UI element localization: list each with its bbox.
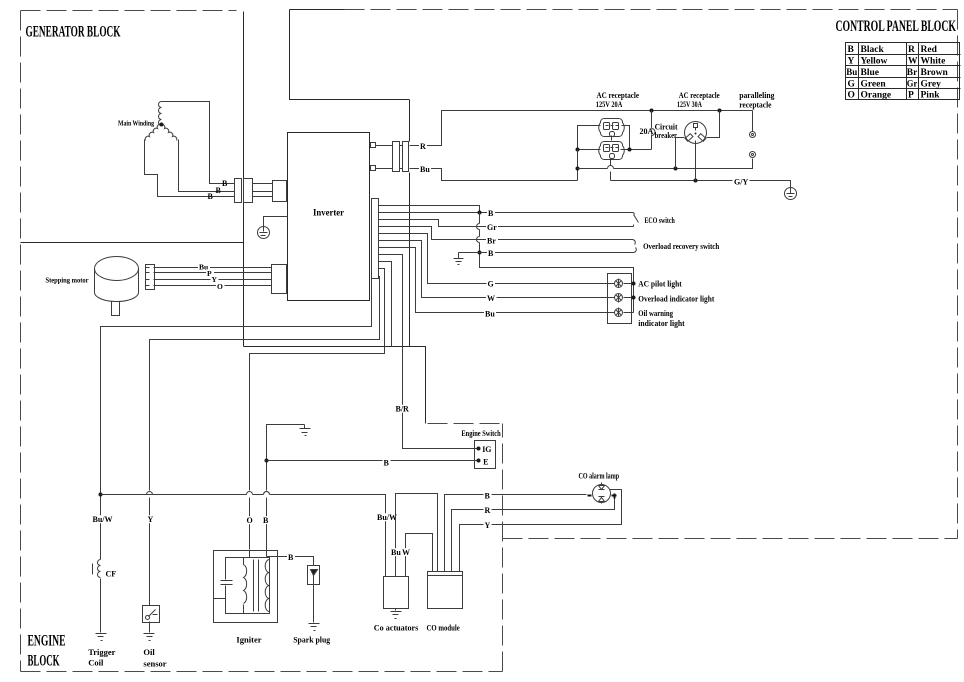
svg-text:B: B (848, 45, 855, 55)
AC pilot light lamp (615, 279, 623, 288)
wire inverter pins to AC connector (376, 146, 403, 169)
svg-text:125V 20A: 125V 20A (596, 100, 623, 109)
ground symbol trigger coil (96, 634, 107, 641)
svg-text:O: O (848, 91, 855, 101)
wire winding top phase to connector (162, 102, 235, 184)
paralleling receptacle terminal top (750, 132, 756, 138)
inverter left stepping terminal box (272, 265, 287, 294)
wire label P (206, 269, 214, 277)
neutral row wire with hop over ground pin (578, 159, 753, 169)
wire B CO module to alarm lamp (445, 495, 587, 572)
svg-text:Gr: Gr (487, 223, 497, 232)
inverter output pin R (371, 143, 376, 148)
wire Bu actuators to CO module (396, 494, 438, 577)
CO module box (428, 576, 463, 609)
svg-text:O: O (217, 282, 223, 291)
wire upper outlet right terminal (622, 126, 630, 150)
ground pin link between outlets (611, 136, 613, 141)
earth ground symbol at inverter (258, 227, 270, 239)
svg-text:B: B (488, 209, 494, 218)
wire label Y (484, 521, 492, 529)
svg-text:Y: Y (148, 515, 154, 524)
20A duplex receptacle lower outlet (599, 141, 625, 159)
svg-text:Grey: Grey (921, 79, 942, 89)
wire 30A right terminal (707, 111, 720, 138)
wire Y inverter to oil sensor (147, 277, 380, 606)
svg-text:R: R (420, 142, 426, 151)
svg-text:BLOCK: BLOCK (28, 653, 60, 670)
wire O inverter to igniter (250, 269, 385, 558)
wire color legend table (846, 43, 961, 101)
svg-text:Brown: Brown (921, 68, 949, 78)
wire B eco w2 (379, 212, 634, 214)
svg-text:Bu/W: Bu/W (93, 515, 113, 524)
igniter capacitor (221, 581, 233, 585)
svg-text:B: B (216, 186, 222, 195)
junction node trigger bus (99, 493, 103, 497)
svg-text:Spark plug: Spark plug (293, 635, 331, 645)
svg-text:W: W (487, 294, 495, 303)
svg-text:ECO switch: ECO switch (645, 216, 676, 225)
svg-text:Trigger: Trigger (88, 647, 115, 657)
engine Bu/W bus to Co actuators (101, 492, 386, 577)
svg-text:B: B (288, 553, 294, 562)
generator block dashed top border (21, 10, 237, 12)
control panel block dashed right border (957, 10, 959, 539)
svg-text:R: R (485, 506, 491, 515)
circuit breaker (651, 111, 653, 129)
svg-text:B: B (222, 179, 228, 188)
svg-text:breaker: breaker (655, 131, 678, 140)
neutral riser Bu (577, 150, 579, 181)
wire winding right phase to connector (179, 140, 235, 192)
igniter secondary coil (265, 560, 269, 612)
lamp right terminal rail (624, 284, 634, 313)
oil sensor box (143, 606, 160, 623)
svg-text:AC receptacle: AC receptacle (597, 91, 640, 100)
wire label Bu (419, 165, 431, 173)
svg-text:O: O (247, 516, 253, 525)
generator block bottom line (21, 242, 244, 244)
ECO switch (634, 213, 639, 227)
svg-text:Overload indicator light: Overload indicator light (638, 294, 714, 303)
svg-text:125V 30A: 125V 30A (677, 100, 702, 109)
engine switch E terminal (477, 459, 481, 463)
inverter left B terminal box (273, 181, 287, 202)
3-phase connector inverter half (244, 179, 253, 203)
svg-text:Bu: Bu (485, 309, 495, 318)
junction node breaker line (628, 148, 632, 152)
wire igniter to spark plug (267, 557, 314, 566)
svg-text:B: B (263, 516, 269, 525)
svg-text:Br: Br (487, 236, 496, 245)
main winding center node (160, 123, 164, 127)
wire label W (401, 548, 412, 556)
svg-text:Red: Red (921, 45, 938, 55)
svg-text:Y: Y (485, 521, 491, 530)
wire label Bu/W (92, 515, 113, 523)
spark plug (308, 566, 320, 585)
wire label R (484, 506, 492, 514)
svg-text:ENGINE: ENGINE (28, 633, 66, 650)
block boundary vertical through R/Bu connector (409, 100, 411, 347)
svg-text:CF: CF (106, 570, 117, 579)
junction node B wire (265, 459, 269, 463)
ground symbol near igniter (300, 425, 311, 436)
junction node neutral row (576, 167, 580, 171)
igniter cap to case stub (214, 598, 226, 600)
stepping motor connector (146, 265, 155, 290)
wire B common w1 (379, 206, 480, 213)
svg-text:Black: Black (861, 45, 885, 55)
wire label B spark (287, 553, 295, 561)
wire winding left phase to connector (145, 140, 235, 197)
svg-text:Yellow: Yellow (861, 57, 888, 67)
B common riser with hops (478, 211, 482, 215)
svg-text:Overload recovery switch: Overload recovery switch (643, 242, 720, 251)
svg-text:B: B (488, 249, 494, 258)
svg-text:IG: IG (482, 445, 491, 454)
wire label Bu (198, 263, 210, 271)
ground symbol oil sensor (144, 634, 155, 641)
junction node GY at 30A ground (694, 179, 698, 183)
svg-text:Igniter: Igniter (236, 635, 261, 645)
main winding coil right (161, 124, 177, 140)
30A twist-lock receptacle (685, 122, 707, 144)
svg-text:Bu/W: Bu/W (377, 513, 397, 522)
plus terminal (612, 494, 617, 499)
svg-text:receptacle: receptacle (739, 100, 772, 109)
indicator lamp box (608, 274, 632, 324)
svg-text:Pink: Pink (921, 91, 941, 101)
earth ground symbol at panel (785, 188, 797, 200)
wire lower outlet left feed (578, 149, 601, 151)
svg-text:Co actuators: Co actuators (374, 623, 419, 633)
wire Bu w7 (379, 248, 615, 313)
wire label B igniter (262, 516, 270, 524)
block boundary vertical right of generator (243, 12, 245, 347)
svg-text:E: E (483, 458, 488, 467)
wire label O (216, 282, 225, 290)
svg-text:G/Y: G/Y (734, 177, 748, 186)
svg-text:sensor: sensor (143, 659, 166, 669)
wire label B/R (395, 405, 412, 413)
svg-text:AC pilot light: AC pilot light (638, 280, 682, 289)
AC output connector inverter half (393, 142, 400, 172)
control panel block dashed bottom border (503, 538, 958, 540)
svg-text:Bu: Bu (391, 548, 401, 557)
block boundary solid left of control panel (290, 10, 410, 100)
junction node on R wire at 30A receptacle (718, 109, 722, 113)
svg-text:Oil warning: Oil warning (638, 309, 673, 318)
wire Bu to receptacle neutral (410, 169, 578, 181)
stepping motor wires to inverter (154, 268, 272, 286)
wire label B (484, 492, 492, 500)
trigger coil CF (93, 560, 101, 578)
svg-text:20A: 20A (640, 127, 654, 136)
svg-text:B: B (485, 491, 491, 500)
wire label Y (147, 515, 155, 523)
wire Br w4 (379, 227, 633, 240)
svg-text:AC receptacle: AC receptacle (679, 91, 720, 100)
engine switch box (475, 441, 496, 469)
svg-text:Coil: Coil (88, 658, 104, 668)
wire Gr w3 (379, 220, 634, 227)
wire stub to boundary (379, 262, 392, 347)
svg-text:Oil: Oil (143, 647, 155, 657)
igniter core (254, 560, 259, 612)
svg-text:B: B (384, 459, 390, 468)
wire W actuators to CO module (406, 534, 433, 577)
AC output connector panel half (403, 142, 409, 172)
ground pin of lower outlet to GY wire (610, 159, 612, 181)
wire B to overload switch (459, 252, 634, 254)
wire label Bu/W actuators (376, 513, 397, 521)
wire R CO module to alarm lamp (452, 499, 615, 572)
svg-text:Bu: Bu (420, 165, 430, 174)
svg-text:W: W (908, 57, 918, 67)
svg-text:Gr: Gr (907, 79, 918, 89)
igniter outer box (214, 551, 278, 623)
minus terminal (588, 495, 592, 497)
wire 30A left terminal (676, 138, 685, 169)
ground symbol at B wire (454, 253, 464, 265)
wire B to engine switch E (267, 460, 479, 462)
wire Bu/W inverter to trigger coil (101, 279, 372, 633)
svg-text:Engine Switch: Engine Switch (461, 429, 501, 438)
junction node at lower outlet left (576, 148, 580, 152)
stepping motor body (95, 257, 139, 316)
svg-text:B: B (208, 192, 214, 201)
main winding coil top (159, 102, 162, 126)
svg-text:Y: Y (848, 57, 855, 67)
svg-text:CO module: CO module (427, 623, 460, 633)
svg-text:CONTROL PANEL BLOCK: CONTROL PANEL BLOCK (836, 18, 957, 35)
igniter primary coil (244, 558, 247, 614)
svg-text:CO alarm lamp: CO alarm lamp (579, 472, 620, 481)
svg-text:G: G (488, 280, 494, 289)
svg-text:paralleling: paralleling (739, 91, 774, 100)
paralleling receptacle terminal bottom (750, 152, 756, 158)
wire upper outlet left terminal (578, 126, 601, 150)
oil warning lamp (615, 308, 623, 317)
wire breaker to duplex receptacle (621, 149, 652, 151)
wire W w6 (379, 241, 615, 298)
engine block dashed right border (502, 424, 504, 672)
3-phase connector generator half (235, 179, 242, 203)
wire label Bu (390, 548, 402, 556)
wire oil sensor to ground (149, 622, 151, 633)
wire R to receptacle feed (410, 111, 753, 146)
svg-text:Stepping motor: Stepping motor (46, 276, 90, 285)
wire R into paralleling top (752, 111, 754, 132)
inverter output pin Bu (371, 166, 376, 171)
svg-text:Bu: Bu (846, 68, 858, 78)
svg-text:B/R: B/R (396, 405, 410, 414)
ground symbol Co actuators (391, 609, 402, 619)
svg-text:indicator light: indicator light (638, 319, 685, 328)
wire label B (383, 459, 391, 467)
svg-text:Br: Br (907, 68, 918, 78)
CO alarm lamp (593, 483, 611, 504)
junction node neutral to 30A (674, 167, 678, 171)
overload indicator lamp (615, 294, 623, 303)
svg-text:Orange: Orange (861, 91, 892, 101)
wire B engine ground net (264, 425, 305, 557)
inverter right signal connector (372, 199, 379, 279)
wire label G/Y (734, 178, 750, 186)
wire G w5 (379, 234, 615, 284)
engine block dashed top-right border (428, 423, 503, 425)
GY ground wire (611, 181, 791, 188)
wire B/R inverter to engine switch IG (379, 255, 479, 449)
svg-text:W: W (402, 548, 410, 557)
svg-text:Blue: Blue (861, 68, 879, 78)
control panel block top border (290, 9, 345, 11)
svg-text:Green: Green (861, 79, 887, 89)
wire labels control rows (487, 209, 495, 217)
ground symbol spark plug (309, 624, 320, 631)
svg-text:G: G (848, 79, 856, 89)
svg-text:White: White (921, 57, 946, 67)
svg-text:P: P (908, 91, 914, 101)
wire label Y (211, 275, 219, 283)
wires connector to inverter B terminals (253, 184, 273, 197)
20A duplex receptacle upper outlet (599, 118, 625, 136)
block boundary staircase to engine block (244, 347, 426, 424)
wire spark plug to ground (313, 585, 315, 623)
svg-text:GENERATOR BLOCK: GENERATOR BLOCK (26, 24, 121, 41)
inverter chassis ground wire (264, 217, 288, 227)
overload recovery switch (633, 240, 637, 253)
CO module top connector bar (428, 572, 463, 576)
wire 30A ground pin (695, 141, 697, 181)
svg-text:Main Winding: Main Winding (118, 119, 154, 128)
junction node on R wire at breaker (650, 109, 654, 113)
Co actuators box (384, 577, 409, 609)
igniter inner box (226, 558, 270, 614)
svg-text:R: R (908, 45, 915, 55)
main winding coil left (145, 124, 161, 140)
wire Y CO module to alarm lamp (460, 490, 622, 572)
generator/engine block dashed left border (20, 11, 22, 672)
wire label O (246, 516, 255, 524)
engine switch IG terminal (477, 447, 481, 451)
engine block dashed bottom border (21, 671, 503, 673)
wire label R (419, 142, 427, 150)
svg-text:Inverter: Inverter (313, 209, 345, 219)
inverter U1 (288, 133, 370, 301)
